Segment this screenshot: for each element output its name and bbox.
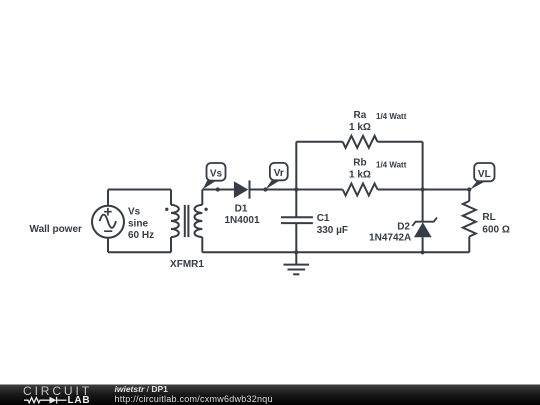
resistor Ra zigzag: [343, 136, 378, 148]
svg-text:1N4742A: 1N4742A: [369, 232, 411, 243]
transformer XFMR1 secondary lead bottom: [201, 237, 203, 252]
voltage source sine symbol: [100, 215, 116, 228]
diode D1 cathode bar: [249, 180, 251, 198]
wire RL bottom lead: [468, 237, 470, 253]
wire main top rail from transformer to D1 anode: [202, 189, 234, 191]
footer bar: [0, 385, 540, 405]
wire D2 branch lower: [422, 237, 424, 252]
wire primary loop left (upper lead of V1): [107, 190, 109, 206]
svg-text:http://circuitlab.com/cxmw6dwb: http://circuitlab.com/cxmw6dwb32nqu: [115, 394, 273, 404]
node flag VL tail: [470, 181, 485, 190]
voltage source plus sign: [104, 208, 112, 216]
ground bar 2: [288, 269, 306, 271]
transformer XFMR1 primary winding: [171, 205, 179, 237]
wire primary loop left (lower lead of V1): [107, 238, 109, 253]
svg-text:1 kΩ: 1 kΩ: [349, 169, 371, 180]
transformer XFMR1 secondary lead top: [201, 190, 203, 205]
wire RL top lead: [468, 190, 470, 202]
transformer primary phase dot: [165, 208, 168, 211]
svg-text:1N4001: 1N4001: [224, 215, 259, 226]
ground stem: [295, 252, 297, 264]
wire C1 branch upper: [295, 190, 297, 218]
wire C1 branch lower: [295, 223, 297, 252]
junction node VL: [467, 187, 471, 191]
svg-text:sine: sine: [128, 219, 148, 230]
node flag Vr tail: [266, 180, 281, 190]
junction node Vr: [263, 187, 267, 191]
svg-text:Vr: Vr: [274, 168, 284, 179]
svg-text:Vs: Vs: [210, 168, 223, 179]
junction node at Ra/Rb right join: [421, 187, 425, 191]
voltage source minus sign: [104, 230, 112, 232]
junction node at C1 / Ra branch top: [294, 187, 298, 191]
svg-text:1 kΩ: 1 kΩ: [349, 122, 371, 133]
wire Ra branch left horizontal: [296, 141, 342, 143]
svg-text:LAB: LAB: [68, 395, 91, 405]
svg-text:1/4 Watt: 1/4 Watt: [376, 112, 407, 121]
svg-text:RL: RL: [482, 212, 495, 223]
wire D2 branch upper: [422, 190, 424, 222]
transformer XFMR1 core: [185, 205, 189, 237]
ground bar 3: [293, 273, 299, 275]
diode D1 triangle: [234, 181, 248, 198]
svg-text:330 µF: 330 µF: [317, 225, 348, 236]
svg-text:XFMR1: XFMR1: [170, 259, 204, 270]
junction node ground: [294, 250, 298, 254]
transformer XFMR1 secondary winding: [194, 205, 202, 237]
wire D1 cathode to Rb left (node Vr): [250, 189, 343, 191]
node flag Vs box: [207, 163, 226, 181]
svg-text:D2: D2: [397, 221, 410, 232]
wire Ra branch right horizontal: [378, 141, 423, 143]
zener diode D2 triangle: [414, 222, 432, 237]
svg-text:Rb: Rb: [353, 157, 366, 168]
svg-text:1/4 Watt: 1/4 Watt: [376, 160, 407, 169]
transformer XFMR1 primary lead bottom: [170, 237, 172, 252]
node flag Vr box: [270, 163, 288, 180]
wire primary loop bottom: [108, 251, 171, 253]
wire bottom rail: [202, 251, 469, 253]
transformer XFMR1 primary lead top: [170, 190, 172, 205]
wire Ra branch right vertical: [422, 142, 424, 190]
CircuitLab logo resistor-diode art: [24, 397, 67, 404]
wire primary loop top: [108, 189, 171, 191]
voltage source V1 (Vs sine 60 Hz) circle: [92, 206, 124, 238]
capacitor C1 bottom plate: [281, 222, 313, 224]
svg-text:iwietstr / DP1: iwietstr / DP1: [115, 384, 169, 394]
wire Rb right to node VL: [378, 189, 470, 191]
svg-text:D1: D1: [235, 203, 248, 214]
transformer secondary phase dot: [204, 208, 207, 211]
capacitor C1 top plate: [281, 216, 313, 218]
ground bar 1: [284, 264, 310, 266]
svg-text:600 Ω: 600 Ω: [482, 224, 509, 235]
junction node D2 bottom: [421, 250, 425, 254]
CircuitLab logo diode triangle: [50, 397, 57, 404]
svg-text:60 Hz: 60 Hz: [128, 230, 154, 241]
svg-text:VL: VL: [478, 169, 491, 180]
zener diode D2 cathode bar with bent ends: [412, 218, 437, 226]
resistor Rb zigzag: [343, 184, 378, 196]
wire Ra branch left vertical: [295, 142, 297, 190]
svg-text:Ra: Ra: [354, 110, 367, 121]
junction node after Vs flag: [216, 187, 220, 191]
svg-text:Vs: Vs: [128, 206, 141, 217]
node flag VL box: [474, 163, 494, 181]
resistor RL zigzag: [463, 201, 476, 236]
svg-text:C1: C1: [317, 213, 330, 224]
svg-text:Wall power: Wall power: [30, 224, 83, 235]
node flag Vs tail: [203, 180, 217, 189]
